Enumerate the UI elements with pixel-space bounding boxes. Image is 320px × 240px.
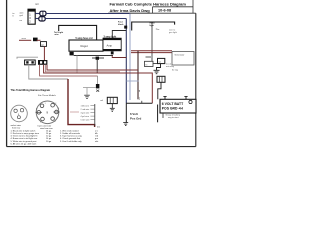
fuse F2 lower: [35, 17, 45, 21]
svg-text:4: 4: [55, 121, 56, 123]
red wire ammeter line: [19, 39, 31, 41]
svg-text:4 yel wire: 4 yel wire: [81, 116, 90, 118]
svg-text:6: 6: [36, 108, 37, 110]
battery: [160, 99, 196, 113]
ground G2: [110, 104, 115, 112]
gray feed line: [17, 57, 38, 59]
svg-text:6v reg: 6v reg: [172, 69, 179, 72]
amp gauge box: [103, 38, 121, 51]
svg-text:2. Solder all terminals: 2. Solder all terminals: [60, 132, 80, 135]
fuse F1 upper: [35, 11, 46, 16]
wire list rail: [94, 104, 96, 126]
key switch top line: [126, 102, 152, 104]
light blue stub: [126, 80, 138, 82]
svg-text:to cut: to cut: [166, 63, 172, 66]
svg-text:gen light: gen light: [169, 31, 177, 34]
svg-text:wht: wht: [95, 140, 99, 143]
legend right column: [60, 129, 82, 142]
svg-text:75w: 75w: [156, 29, 160, 31]
svg-text:6 VOLT BATT: 6 VOLT BATT: [162, 102, 184, 106]
left connector circle: [11, 105, 28, 122]
thick red down wire: [68, 79, 95, 127]
wire branch to amp box: [112, 31, 126, 39]
bracket tail light wire: [59, 25, 97, 40]
svg-text:mtr: mtr: [35, 2, 39, 6]
condenser lead: [83, 87, 96, 89]
svg-text:10 ga: 10 ga: [46, 141, 52, 143]
svg-text:5 wht wire: 5 wht wire: [81, 118, 91, 121]
svg-text:3. Green wire to head light fr: 3. Green wire to head light frt: [11, 135, 38, 138]
block B: [158, 58, 165, 63]
svg-text:amm: amm: [22, 38, 27, 40]
svg-text:block: block: [118, 24, 124, 26]
svg-text:dist: dist: [97, 125, 101, 128]
connector blob: [22, 38, 38, 42]
svg-text:After Irma Davis Dwg: After Irma Davis Dwg: [110, 8, 151, 13]
wire navy lower: [45, 18, 126, 20]
red wire down: [43, 46, 45, 60]
svg-text:Farmall Cub Complete Harness D: Farmall Cub Complete Harness Diagram: [110, 2, 187, 7]
bracket head light wire: [132, 22, 175, 31]
ground G3: [123, 123, 128, 126]
title block frame: [108, 0, 196, 13]
condenser wire: [97, 76, 99, 84]
coil box: [107, 97, 117, 103]
svg-text:1 blk wire: 1 blk wire: [81, 105, 90, 107]
svg-text:5. Use 6 volt bulbs only: 5. Use 6 volt bulbs only: [60, 140, 82, 143]
svg-text:Amp: Amp: [107, 43, 113, 47]
right connector circle: [36, 101, 60, 124]
svg-text:5. White wire to ground post: 5. White wire to ground post: [11, 140, 37, 143]
battery posts: [163, 97, 166, 100]
wire C to battery: [158, 82, 161, 99]
wire gray y79: [29, 65, 68, 79]
svg-text:4. Check grounds first: 4. Check grounds first: [60, 137, 81, 140]
faint red stub: [70, 111, 79, 113]
step wire to ground: [157, 64, 161, 70]
svg-text:3: 3: [58, 108, 59, 110]
svg-text:from rear: from rear: [12, 127, 20, 129]
svg-text:2: 2: [55, 103, 56, 105]
svg-text:This Total Wiring Harness Diag: This Total Wiring Harness Diagram: [11, 89, 51, 92]
small box ign: [41, 42, 47, 47]
condenser: [83, 84, 99, 98]
svg-text:6. All wires 14 ga cloth loom: 6. All wires 14 ga cloth loom: [11, 142, 37, 145]
fuse on vertical wire: [124, 26, 127, 29]
svg-text:POS GRD +H: POS GRD +H: [162, 107, 184, 111]
svg-text:4. Brown wire to tail light re: 4. Brown wire to tail light rear: [11, 137, 38, 140]
key switch sides: [125, 103, 127, 122]
svg-text:2. Red wire to amp gauge term: 2. Red wire to amp gauge term: [11, 132, 40, 135]
svg-text:2 red wire: 2 red wire: [81, 109, 91, 111]
svg-text:5: 5: [40, 122, 41, 124]
block C: [157, 76, 165, 82]
drop gray: [76, 55, 78, 72]
red pair to generator: [131, 50, 172, 52]
svg-text:1. Wire ends sealed: 1. Wire ends sealed: [60, 129, 79, 132]
svg-text:1. Black wire to light switch: 1. Black wire to light switch: [11, 129, 37, 132]
border bottom: [7, 146, 196, 148]
svg-text:Generator: Generator: [175, 53, 185, 56]
amp box tap: [111, 51, 114, 54]
connector J1 (top left): [28, 9, 35, 24]
svg-text:light: light: [150, 24, 155, 27]
wire drop to block A: [151, 22, 153, 61]
border right: [195, 13, 197, 146]
legend left column: [11, 129, 40, 145]
generator box: [172, 52, 194, 66]
svg-text:ign: ign: [41, 44, 44, 46]
wire y76: [40, 65, 98, 76]
border left: [6, 0, 8, 147]
ground G1: [154, 70, 160, 73]
svg-text:3. Tape harness as orig: 3. Tape harness as orig: [60, 135, 82, 138]
svg-text:1: 1: [45, 103, 46, 105]
wire y70: [47, 65, 138, 70]
svg-text:10-6-08: 10-6-08: [158, 9, 171, 13]
light switch assembly: [25, 60, 48, 65]
wire navy vertical light: [129, 14, 131, 101]
ground G4: [84, 95, 90, 98]
wire y73: [44, 65, 153, 103]
block A: [145, 57, 154, 67]
stub below battery: [162, 113, 164, 118]
svg-text:Regul.: Regul.: [81, 44, 89, 48]
wire navy upper: [46, 13, 130, 15]
svg-text:3 grn wire: 3 grn wire: [81, 112, 91, 114]
dark wire to battery: [137, 51, 139, 100]
svg-text:Pos Grd: Pos Grd: [130, 116, 141, 120]
bus bar under boxes: [70, 52, 74, 56]
svg-text:neg to start: neg to start: [168, 116, 179, 119]
wire list column: [81, 105, 91, 121]
regulator box: [69, 40, 103, 51]
drop dark: [96, 60, 98, 73]
svg-text:out relay: out relay: [166, 65, 175, 68]
wire navy vertical dark: [125, 19, 127, 104]
svg-text:Fits These Models: Fits These Models: [38, 94, 57, 97]
